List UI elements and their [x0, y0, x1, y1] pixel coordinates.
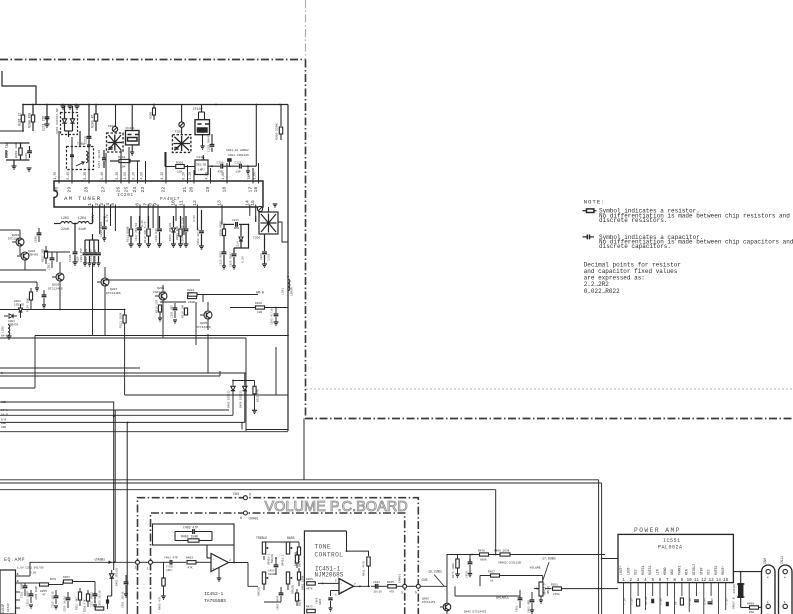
svg-text:MUTE1: MUTE1	[641, 565, 645, 575]
wire q203 bias	[56, 252, 58, 262]
svg-text:C219 R047: C219 R047	[207, 135, 211, 152]
capacitor C217 263/10	[139, 216, 141, 227]
connector CN3 pin 1	[136, 560, 140, 564]
transistor Q202	[16, 238, 24, 246]
svg-text:AF-L: AF-L	[1, 409, 8, 412]
svg-text:23: 23	[140, 187, 146, 193]
ground	[93, 604, 97, 606]
wire bus y423	[126, 422, 128, 614]
svg-text:R257 4K7: R257 4K7	[76, 596, 79, 610]
svg-text:C457 R047: C457 R047	[277, 595, 280, 610]
wire CF201	[131, 105, 133, 131]
ground	[530, 609, 535, 611]
svg-text:VCC: VCC	[634, 569, 638, 575]
CN11 pin 1	[783, 604, 787, 608]
pin wire	[152, 207, 154, 228]
svg-text:C214: C214	[237, 241, 240, 248]
IC551 pin wire	[674, 583, 676, 596]
pin wire	[128, 147, 130, 181]
svg-text:-17.6dBs: -17.6dBs	[540, 557, 556, 561]
svg-text:4: 4	[784, 576, 786, 580]
IC551 pin wire	[717, 583, 719, 596]
capacitor C229	[98, 240, 100, 252]
wire IC451 out	[354, 585, 371, 587]
svg-text:BR2K: BR2K	[299, 560, 302, 567]
svg-text:3.4V: 3.4V	[91, 214, 95, 222]
wire bus vertical x242	[241, 422, 243, 429]
svg-text:discrete resistors.: discrete resistors.	[599, 217, 667, 224]
svg-text:R206: R206	[149, 112, 153, 119]
svg-text:DTC124ES: DTC124ES	[48, 287, 63, 291]
capacitor C257 R022	[93, 593, 98, 595]
wire bus y335	[35, 335, 288, 337]
svg-text:12: 12	[701, 579, 707, 583]
svg-text:T204: T204	[108, 124, 116, 128]
svg-text:C255 10/16: C255 10/16	[51, 591, 55, 608]
svg-text:C461: C461	[516, 605, 519, 612]
svg-text:22: 22	[161, 187, 167, 193]
svg-text:C251 100P: C251 100P	[21, 583, 24, 598]
T204 screw	[112, 127, 117, 132]
pin wire	[226, 163, 228, 181]
resistor R220 100	[256, 306, 265, 309]
svg-text:26: 26	[116, 187, 122, 193]
wire pwr left	[602, 558, 618, 560]
capacitor C211 27P	[46, 105, 48, 123]
feedback box	[153, 524, 235, 545]
wire eq out	[20, 575, 30, 577]
svg-text:R111 680B: R111 680B	[127, 226, 130, 242]
ground	[468, 573, 473, 575]
resistor R555	[680, 598, 683, 605]
svg-text:R301: R301	[118, 155, 125, 159]
junction	[75, 104, 77, 106]
crystal X201	[227, 158, 232, 162]
capacitor C441 10/16	[375, 584, 377, 589]
svg-text:IC452-1: IC452-1	[204, 591, 224, 597]
svg-text:C259 10/16: C259 10/16	[63, 595, 67, 612]
svg-text:C211 27P: C211 27P	[42, 116, 46, 131]
svg-text:41uH: 41uH	[78, 227, 86, 231]
svg-text:4.8V: 4.8V	[204, 172, 208, 180]
wire L203-L204	[54, 223, 61, 225]
pin wire	[92, 207, 94, 224]
svg-text:C459: C459	[466, 571, 469, 578]
wire opamp out	[229, 562, 249, 564]
svg-text:0.8V: 0.8V	[30, 572, 37, 575]
tuner board boundary right lower (dash-dot)	[305, 60, 307, 419]
capacitor inside T205	[174, 147, 178, 149]
svg-text:C255 100P: C255 100P	[35, 586, 38, 600]
wire Q207 long	[105, 279, 200, 281]
svg-text:RM1: RM1	[234, 227, 239, 230]
svg-text:C196: C196	[68, 255, 72, 262]
wire x304 vertical	[303, 419, 305, 481]
capacitor C215 R047	[88, 105, 90, 137]
svg-text:T201: T201	[77, 142, 85, 146]
svg-text:VCC: VCC	[707, 569, 711, 575]
connector CN5 pin 5	[416, 584, 420, 588]
resistor R218 2K2	[188, 295, 197, 298]
resistor R210b 100	[184, 308, 187, 315]
svg-text:EQ.AMP: EQ.AMP	[4, 557, 25, 563]
svg-text:R465: R465	[306, 578, 313, 581]
svg-text:GND: GND	[1, 422, 6, 425]
op-amp ground	[218, 567, 220, 578]
IC401 EQ amp body	[0, 570, 16, 614]
IC551 pin wire	[710, 583, 712, 596]
capacitor C265	[106, 599, 109, 603]
svg-text:25: 25	[124, 187, 130, 193]
pin wire	[221, 207, 223, 224]
diode D251	[110, 574, 114, 578]
wire crossing verticals	[162, 309, 164, 338]
ground above T206	[273, 203, 278, 205]
svg-text:CN401: CN401	[398, 574, 402, 583]
svg-text:CN3: CN3	[233, 493, 239, 497]
diode D214	[240, 224, 242, 236]
svg-text:C218 R01: C218 R01	[155, 228, 158, 242]
capacitor C281	[50, 257, 55, 259]
ground	[12, 165, 17, 167]
svg-text:C204 45P: C204 45P	[80, 248, 83, 262]
pin wire	[139, 207, 141, 231]
svg-text:R210 43K 4.7V: R210 43K 4.7V	[144, 221, 147, 243]
resistor R477	[307, 609, 316, 612]
callout line b	[543, 562, 549, 580]
svg-text:100uH: 100uH	[291, 287, 294, 296]
resistor R255 47	[40, 583, 49, 586]
svg-text:CN401: CN401	[249, 518, 259, 522]
resistor R210 43K	[148, 216, 150, 228]
capacitor C459	[468, 561, 473, 563]
resistor R486 2K34	[500, 553, 510, 556]
svg-text:3161P: 3161P	[2, 604, 6, 614]
ground	[35, 287, 39, 289]
svg-text:C350 33/16: C350 33/16	[196, 228, 200, 245]
wire q455 area	[446, 586, 448, 603]
svg-text:6.2V: 6.2V	[181, 172, 185, 180]
pin wire	[114, 207, 116, 231]
svg-text:R470: R470	[478, 550, 485, 553]
pin wire	[99, 207, 101, 234]
svg-text:VR451-2: VR451-2	[282, 554, 285, 566]
tone box	[304, 531, 346, 614]
wire pin13 down	[221, 216, 223, 224]
wire left cluster	[0, 229, 20, 231]
svg-text:RIN: RIN	[685, 569, 689, 575]
pin wire	[210, 168, 212, 181]
wire R301	[165, 166, 176, 168]
resistor R216	[188, 293, 197, 296]
svg-text:AF-R: AF-R	[1, 414, 8, 417]
varactor D201 SVC341-NP (dashed box)	[61, 113, 78, 135]
electrolytic C223 1/50	[264, 234, 266, 251]
capacitor C401 7/50	[169, 560, 171, 565]
svg-text:R301: R301	[176, 161, 183, 165]
capacitor C207 461/25	[185, 216, 187, 228]
resistor R205 47	[95, 105, 97, 132]
wire x256 vertical	[255, 105, 257, 167]
svg-text:AM-F: AM-F	[1, 335, 8, 338]
inductor L201 100uH	[288, 279, 290, 290]
IF transformer T205	[172, 135, 191, 153]
diode D406 1SS133	[244, 381, 246, 386]
svg-text:MONO: MONO	[663, 567, 667, 575]
junction	[46, 104, 48, 106]
svg-text:29: 29	[67, 187, 73, 193]
svg-text:1: 1	[767, 600, 769, 604]
wire after CN5	[420, 585, 447, 587]
svg-text:R411 447K: R411 447K	[363, 561, 366, 576]
ceramic filter CF102	[195, 120, 210, 135]
svg-text:4.2V: 4.2V	[188, 172, 192, 180]
capacitor C198	[37, 232, 42, 234]
varactor diode a	[64, 106, 66, 119]
ground	[161, 595, 166, 597]
board boundary CN3 line (dash-dot)	[138, 498, 419, 614]
resistor R451	[297, 572, 300, 580]
svg-text:14: 14	[716, 579, 722, 583]
wire L202 cluster	[6, 142, 30, 144]
connector CN401 top pin	[243, 511, 247, 515]
ground	[7, 335, 12, 337]
junction	[32, 104, 34, 106]
svg-text:C226 R047: C226 R047	[230, 252, 233, 267]
svg-text:R259 47K: R259 47K	[84, 599, 87, 612]
pin wire	[147, 207, 149, 228]
pin wire	[58, 131, 60, 181]
svg-text:Q201: Q201	[28, 249, 35, 253]
svg-text:R251: R251	[50, 578, 57, 581]
IC551 pin wire	[630, 583, 632, 596]
capacitor C208 R022	[89, 240, 91, 252]
svg-text:10P: 10P	[236, 171, 241, 174]
wire right vertical	[287, 105, 289, 432]
svg-text:R499: R499	[747, 603, 754, 606]
svg-text:C211: C211	[232, 219, 239, 222]
potentiometer VR451-1b	[262, 572, 265, 584]
svg-text:47K: 47K	[188, 567, 193, 570]
pin wire	[165, 152, 167, 181]
wire to CN6	[741, 607, 750, 609]
svg-text:R455: R455	[387, 581, 394, 584]
wire y295	[197, 294, 258, 296]
svg-text:D406 1SS133: D406 1SS133	[240, 390, 243, 408]
wire CF102	[198, 112, 200, 120]
svg-text:GND: GND	[670, 569, 674, 575]
svg-text:50K(B): 50K(B)	[257, 586, 261, 596]
svg-text:R211 182K: R211 182K	[120, 312, 123, 328]
resistor R470	[480, 553, 489, 556]
wire bus y410	[0, 409, 229, 411]
svg-text:0.022→R022: 0.022→R022	[584, 288, 620, 295]
transistor Q206 2SC1115	[159, 292, 167, 300]
svg-text:10: 10	[687, 579, 693, 583]
svg-text:R476 100A: R476 100A	[452, 563, 455, 578]
ground	[75, 105, 80, 107]
IC201 AM TUNER PA4817 body	[54, 181, 263, 207]
svg-text:447K: 447K	[306, 588, 313, 591]
svg-text:28: 28	[84, 187, 90, 193]
svg-text:R204 47K: R204 47K	[28, 113, 32, 128]
svg-text:NJM2068S: NJM2068S	[315, 572, 344, 579]
wire bus y414.5	[0, 414, 233, 416]
wire bus vertical x220	[219, 371, 221, 376]
wire arrow eq	[108, 561, 112, 563]
wire c211 row	[224, 223, 234, 225]
svg-text:1: 1	[784, 600, 786, 604]
svg-text:VDD: VDD	[1, 426, 6, 429]
pin wire	[157, 207, 159, 228]
wire bus y368	[0, 367, 140, 369]
svg-text:CONTROL: CONTROL	[315, 552, 344, 559]
svg-text:LOUT-: LOUT-	[626, 565, 630, 575]
transistor Q205	[204, 311, 212, 319]
ground	[173, 319, 177, 321]
varactor diode b	[72, 106, 74, 119]
svg-text:C217 263/10: C217 263/10	[134, 222, 138, 241]
pin wire	[175, 207, 177, 221]
svg-text:1/50: 1/50	[267, 254, 271, 261]
capacitor C553	[651, 599, 654, 604]
svg-text:22uH: 22uH	[61, 227, 69, 231]
IC551 pin wire	[659, 583, 661, 596]
ground	[68, 105, 73, 107]
capacitor C219	[211, 134, 213, 144]
wire tone path	[248, 563, 258, 587]
svg-text:TONE: TONE	[315, 544, 331, 551]
capacitor C455b	[328, 597, 332, 599]
IC551 pin wire	[725, 583, 727, 596]
svg-text:2K2B: 2K2B	[188, 301, 195, 304]
svg-text:POWER AMP: POWER AMP	[634, 527, 681, 534]
svg-text:3.5V: 3.5V	[193, 215, 196, 222]
wire bus y479.8	[0, 479, 599, 481]
svg-text:LIN: LIN	[656, 569, 660, 575]
svg-text:30: 30	[54, 187, 60, 193]
capacitor C204 45P	[84, 240, 86, 252]
svg-text:13: 13	[709, 579, 715, 583]
wire eq mid	[20, 582, 25, 584]
op-amp IC451-1 triangle	[339, 579, 354, 595]
transistor Q455	[443, 603, 451, 611]
IC551 pin wire	[644, 583, 646, 596]
wire q205 area	[160, 301, 186, 303]
wire bus y338	[0, 337, 246, 339]
pin wire	[88, 133, 90, 181]
capacitor C201 4R7	[173, 307, 178, 309]
wire varactor bottom	[65, 130, 73, 132]
svg-text:BR2B: BR2B	[299, 599, 302, 606]
op-amp IC452-1	[211, 554, 229, 572]
resistor R222	[44, 251, 47, 258]
resistor R405b	[162, 578, 165, 586]
connector CN11	[779, 565, 793, 614]
capacitor C261 18/16	[124, 581, 129, 583]
svg-text:R467: R467	[488, 571, 495, 574]
note capacitor symbol	[583, 236, 588, 238]
resistor R449	[297, 547, 300, 555]
svg-text:C403 47P: C403 47P	[183, 526, 198, 530]
svg-text:100: 100	[257, 311, 262, 314]
diode D203	[19, 308, 23, 312]
capacitor C211b	[235, 222, 237, 227]
T201 internals	[70, 154, 74, 156]
wire T206 loop	[278, 222, 288, 242]
resistor R201b 18K	[180, 216, 182, 228]
svg-text:270A: 270A	[553, 593, 560, 596]
svg-text:discrete capacitors.: discrete capacitors.	[599, 243, 671, 250]
capacitor C259	[66, 597, 71, 599]
pin wire	[249, 207, 251, 211]
svg-text:AM-B: AM-B	[256, 291, 264, 295]
wire bus y388	[0, 387, 35, 389]
svg-text:5.4V: 5.4V	[66, 172, 70, 180]
svg-text:CF201: CF201	[126, 126, 135, 130]
svg-text:R214 18K: R214 18K	[27, 298, 30, 312]
svg-text:D204 1SS133: D204 1SS133	[169, 222, 172, 241]
wire bus vertical x246	[245, 338, 247, 431]
svg-text:R222 2R2: R222 2R2	[42, 248, 45, 262]
wire signal main	[140, 561, 149, 563]
IF transformer T206	[259, 212, 278, 234]
capacitor C199	[42, 294, 47, 296]
wire bus y483	[0, 482, 602, 484]
wire bus y395	[125, 394, 288, 396]
svg-text:C223: C223	[260, 253, 263, 260]
svg-text:R2P: R2P	[76, 256, 80, 262]
svg-text:8.3V: 8.3V	[83, 172, 87, 180]
wire tone net	[264, 541, 299, 543]
capacitor C216 R022	[103, 216, 105, 226]
resistor R449	[295, 555, 298, 563]
svg-text:LOUT+: LOUT+	[619, 565, 623, 575]
wire bus y373	[0, 372, 246, 374]
svg-text:R253: R253	[63, 576, 70, 579]
wire bus y402	[0, 401, 114, 403]
svg-text:C198: C198	[35, 236, 38, 243]
svg-text:-: -	[213, 558, 215, 562]
inductor L203 22uH	[61, 222, 72, 224]
svg-text:T205: T205	[175, 130, 183, 134]
wire c218	[202, 155, 204, 160]
ground	[27, 167, 32, 169]
pin wire	[187, 165, 189, 181]
svg-text:-: -	[341, 582, 343, 586]
IC551 pin wire	[666, 583, 668, 596]
svg-text:680P: 680P	[319, 598, 322, 605]
resistor R467 1K	[491, 574, 500, 577]
transistor Q201	[21, 252, 29, 260]
junction	[88, 104, 90, 106]
wire bus y489.7	[0, 489, 496, 491]
IC551 pin wire	[623, 583, 625, 596]
pin wire	[193, 170, 195, 181]
svg-text:50K(B): 50K(B)	[291, 584, 295, 594]
svg-text:8.3V: 8.3V	[115, 172, 119, 180]
wire to CN401b	[396, 585, 403, 587]
svg-text:50K(B): 50K(B)	[270, 553, 274, 563]
svg-text:D405 1SS133: D405 1SS133	[228, 390, 231, 408]
svg-text:17: 17	[248, 187, 254, 193]
resistor R111 680	[130, 216, 132, 228]
svg-text:Q202: Q202	[12, 233, 19, 237]
svg-text:10/16: 10/16	[374, 590, 383, 594]
svg-text:SVDS SVC341-NP: SVDS SVC341-NP	[55, 108, 59, 134]
svg-text:R202 100: R202 100	[14, 143, 18, 158]
wire R301	[110, 160, 119, 162]
